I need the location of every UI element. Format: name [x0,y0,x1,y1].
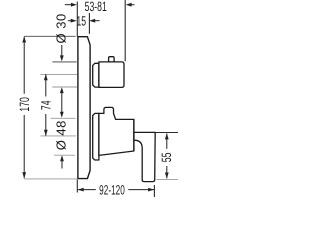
extension line knob-top [52,61,76,63]
handle collar [93,113,99,160]
extension line lever-top [155,132,178,134]
dimension 15 [68,14,100,29]
svg-text:92-120: 92-120 [99,182,125,197]
svg-text:55: 55 [159,153,174,163]
extension line body-top gray [51,117,76,119]
lever attachment face line [133,119,135,151]
dimension 53-81 [65,0,135,14]
svg-text:Ø 30: Ø 30 [54,13,69,43]
extension line handle centerline [41,135,77,137]
escutcheon plate (side view) [78,37,90,179]
extension line knob centerline [41,73,78,75]
extension line plate-back bottom [76,180,78,193]
dimension 55 [159,133,174,178]
extension line plate-top [24,35,75,37]
thermostat knob body [99,62,124,88]
svg-text:53-81: 53-81 [85,0,107,14]
extension line body-bottom gray [54,154,75,156]
extension line plate-bottom gray [24,178,77,180]
dimension 170 [17,37,32,179]
svg-text:74: 74 [38,100,53,110]
extension line lever-bottom gray [157,179,179,181]
svg-text:15: 15 [76,14,86,29]
thermostat knob nub [109,57,115,62]
svg-text:170: 170 [17,97,32,111]
dimension diameter 30 [54,13,69,117]
dimension 74 [38,74,53,136]
dimension 92-120 [78,182,154,197]
extension line plate-front [88,13,90,34]
lever handle [134,132,155,181]
extension line knob-bottom gray [52,86,77,88]
thermostat knob collar [93,63,99,87]
extension line plate-back top [76,2,78,37]
valve body with dome [99,107,134,155]
dimension diameter 48 [53,120,68,168]
svg-text:Ø 48: Ø 48 [53,120,68,150]
extension line knob-front [124,0,126,61]
extension line lever-right bottom [153,185,155,197]
